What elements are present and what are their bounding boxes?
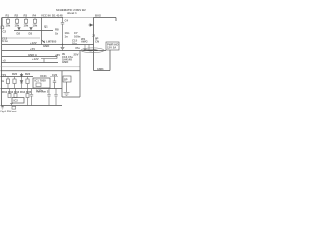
cable core — [84, 49, 98, 52]
wire top rail right — [94, 17, 117, 19]
svg-text:SP: SP — [64, 78, 68, 82]
svg-text:1k: 1k — [1, 79, 5, 83]
svg-text:+12V: +12V — [32, 57, 39, 61]
wire rail D — [2, 44, 94, 46]
resistor R33 — [14, 89, 17, 98]
svg-text:D2: D2 — [17, 32, 21, 36]
svg-text:IC1 7805: IC1 7805 — [35, 79, 47, 83]
wire rail I — [1, 76, 34, 78]
diode D8 — [20, 79, 23, 89]
capacitor C9 — [61, 45, 65, 51]
speaker inner box — [63, 76, 71, 92]
ground symbol — [64, 93, 70, 96]
resistor R22 — [26, 77, 29, 89]
svg-text:GND1: GND1 — [97, 68, 104, 71]
svg-text:1k: 1k — [55, 32, 59, 36]
svg-text:0.1u: 0.1u — [2, 39, 8, 43]
wire net stub — [41, 55, 57, 63]
resistor R4 — [33, 18, 36, 25]
wire rail E — [2, 50, 106, 52]
connector J3 box — [106, 42, 119, 50]
IC1 regulator box — [33, 78, 50, 88]
transistor Q1 — [42, 18, 45, 45]
svg-text:AWG: AWG — [81, 40, 88, 44]
diode D2 on rail B — [18, 28, 20, 31]
svg-text:R2: R2 — [15, 14, 19, 18]
resistor R20 — [6, 77, 9, 89]
svg-text:C4: C4 — [65, 19, 69, 23]
diode D5 into bus — [89, 24, 94, 26]
cable bundle oval — [81, 48, 104, 53]
capacitor C2 left — [1, 18, 4, 29]
svg-text:+5V: +5V — [30, 47, 35, 51]
svg-text:IC2: IC2 — [14, 99, 19, 103]
svg-text:C20: C20 — [52, 73, 58, 77]
wire rail F — [2, 56, 57, 58]
resistor R32 — [8, 89, 11, 98]
svg-text:10k: 10k — [6, 23, 11, 27]
svg-text:10k: 10k — [33, 23, 38, 27]
capacitor C20 — [53, 77, 56, 89]
svg-text:D1 4148: D1 4148 — [52, 14, 63, 18]
wire top rail — [2, 17, 63, 19]
svg-text:GND: GND — [62, 60, 68, 64]
ground below rail K — [1, 106, 4, 110]
svg-text:25V: 25V — [74, 53, 79, 57]
svg-text:+5V: +5V — [55, 53, 60, 57]
wire rail C — [2, 37, 40, 39]
svg-text:+12V: +12V — [30, 41, 37, 45]
svg-text:R22: R22 — [25, 72, 31, 76]
svg-text:R4: R4 — [33, 14, 37, 18]
svg-text:R20: R20 — [12, 72, 18, 76]
svg-text:R3: R3 — [24, 14, 28, 18]
svg-text:sheet 1: sheet 1 — [67, 11, 77, 15]
svg-text:Fig 4. PSU sect: Fig 4. PSU sect — [1, 110, 17, 113]
wire right lower segment — [94, 70, 111, 72]
svg-text:VCC IN: VCC IN — [41, 14, 50, 18]
node dot J1 — [62, 44, 63, 45]
capacitor C32 — [54, 89, 57, 106]
wire drops into cable — [85, 45, 89, 51]
diode D3 on rail B — [30, 28, 32, 31]
wire left rail — [1, 18, 3, 106]
resistor R1 — [6, 18, 9, 25]
svg-text:CN: CN — [95, 40, 99, 44]
wire rail G — [2, 62, 59, 64]
wire rail H — [1, 70, 81, 72]
wire rail G2 — [1, 66, 81, 68]
IC2 box — [12, 98, 24, 104]
wire rail K — [1, 105, 63, 107]
svg-text:R31: R31 — [2, 90, 8, 94]
junction tick — [10, 104, 13, 106]
diode D7 arrow — [20, 73, 22, 79]
svg-text:10k: 10k — [24, 23, 29, 27]
svg-text:+5: +5 — [3, 59, 7, 63]
capacitor C31 — [47, 89, 50, 106]
enclosure box — [62, 51, 80, 98]
wire rail B — [14, 30, 53, 32]
svg-text:TP1: TP1 — [1, 73, 7, 77]
svg-text:BUS: BUS — [95, 14, 101, 18]
capacitor C30 — [30, 89, 33, 106]
wire connector drop — [109, 50, 111, 71]
svg-text:Version 2: Version 2 — [36, 90, 49, 94]
svg-text:47u: 47u — [75, 46, 80, 50]
wire right vertical bus — [93, 18, 95, 71]
svg-text:R1: R1 — [6, 14, 10, 18]
svg-text:R34: R34 — [20, 90, 26, 94]
svg-text:12V 2A: 12V 2A — [107, 46, 116, 50]
wire rail I right — [50, 76, 58, 78]
svg-text:1n: 1n — [65, 35, 69, 39]
wire top-right stub — [115, 18, 117, 22]
resistor R2 — [15, 18, 18, 25]
wire rail J — [1, 88, 63, 90]
svg-text:GND: GND — [43, 44, 49, 48]
svg-text:C2: C2 — [3, 30, 7, 34]
svg-text:D3: D3 — [29, 32, 33, 36]
resistor R35 — [26, 89, 29, 106]
capacitor C4 — [61, 18, 64, 45]
svg-text:Q1: Q1 — [44, 25, 48, 29]
wire top rail mid — [63, 17, 94, 19]
svg-text:U101: U101 — [40, 74, 47, 78]
resistor R3 — [24, 18, 27, 25]
resistor R21 — [13, 77, 16, 89]
svg-text:10k: 10k — [15, 23, 20, 27]
small box below rail K — [12, 106, 16, 109]
